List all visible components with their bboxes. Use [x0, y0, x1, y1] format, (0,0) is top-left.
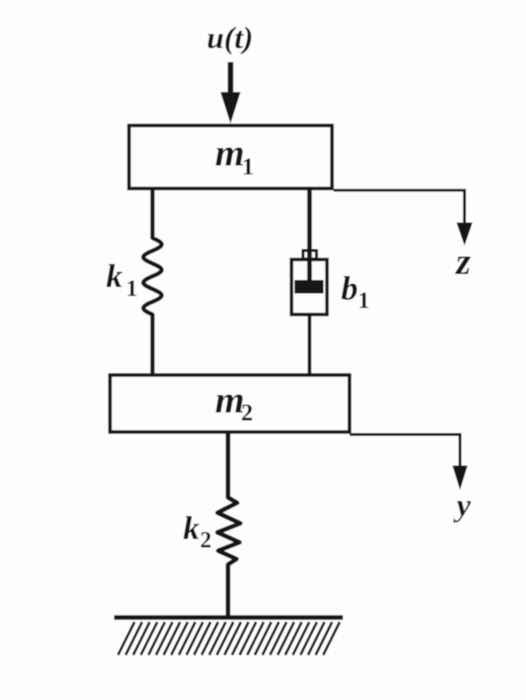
svg-text:1: 1 — [126, 276, 138, 301]
svg-text:u(t): u(t) — [207, 20, 254, 55]
svg-text:k: k — [106, 259, 123, 295]
svg-text:1: 1 — [358, 288, 370, 313]
svg-text:m: m — [215, 133, 245, 175]
svg-text:1: 1 — [242, 155, 254, 181]
svg-text:2: 2 — [241, 401, 253, 427]
svg-text:z: z — [454, 241, 471, 283]
svg-text:b: b — [341, 271, 358, 308]
svg-text:k: k — [183, 511, 200, 547]
svg-text:2: 2 — [200, 528, 212, 553]
